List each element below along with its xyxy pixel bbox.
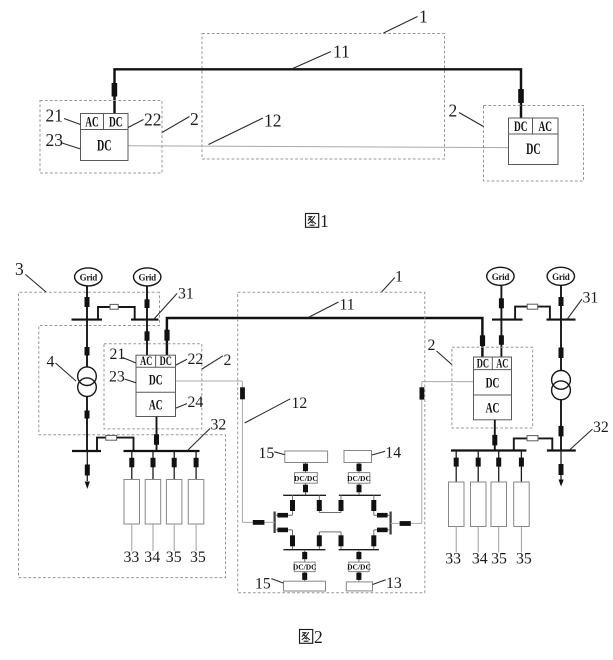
tail wire 33 [131, 524, 133, 551]
svg-text:32: 32 [211, 417, 227, 434]
breaker mark on converter AC input [145, 331, 150, 341]
figure 1 [40, 7, 584, 232]
svg-text:2: 2 [428, 337, 436, 354]
mark arm A [290, 500, 295, 511]
svg-text:DC: DC [109, 115, 123, 131]
wire: battery feeder 4 [195, 451, 197, 480]
mark on stub A [277, 513, 288, 518]
wire: battery feeder 2 right [477, 451, 479, 483]
svg-text:2: 2 [190, 109, 199, 129]
transformer right [552, 371, 571, 400]
mark on right feed [400, 521, 411, 526]
breaker mark on G1 feeder [85, 297, 90, 307]
svg-text:AC: AC [496, 355, 508, 370]
breaker mark feeder 3 [172, 458, 177, 468]
battery unit 35b [188, 480, 204, 525]
grid source G3 [487, 267, 514, 285]
breaker mark feeder 1 [129, 458, 134, 468]
breaker mark above right transformer [559, 348, 564, 359]
tail wire 34 [152, 524, 154, 551]
arrow outgoing feeder [85, 482, 90, 490]
breaker mark feeder 2 right [476, 458, 481, 467]
svg-text:DC: DC [97, 138, 112, 155]
leader line to 4 [56, 363, 77, 381]
battery box 15 (bottom) [284, 581, 326, 591]
lower busbar 32 (transformer segment) [72, 450, 101, 452]
AC busbar 31 right (left segment) [492, 319, 523, 321]
battery unit 33 right [449, 482, 465, 527]
lower bus-tie loop right [514, 438, 553, 450]
svg-text:23: 23 [46, 130, 64, 150]
svg-text:2: 2 [314, 627, 323, 647]
arrow right outgoing feeder [559, 480, 564, 487]
bridge arm wire C2 [340, 532, 342, 550]
isolator mark on right leg of 11 [480, 335, 485, 346]
breaker mark on right AC output [492, 435, 497, 446]
breaker mark on converter AC input right [499, 335, 504, 345]
leader line to 13 [373, 580, 386, 585]
tail wire 35a [173, 524, 175, 551]
svg-text:33: 33 [124, 549, 140, 566]
tail wire 33 right [455, 527, 457, 553]
stub wire bar to arm A [275, 514, 293, 516]
mark arm D [371, 500, 376, 511]
svg-text:31: 31 [178, 286, 194, 303]
svg-text:2: 2 [449, 101, 458, 121]
breaker mark below right transformer [559, 426, 564, 437]
converter right: DC/AC + DC + AC stack [474, 355, 512, 420]
lower bus-tie switch box right [527, 436, 538, 441]
svg-text:DC: DC [160, 353, 172, 368]
mark on stub A2 [277, 528, 288, 533]
wire: battery feeder 1 right [455, 451, 457, 483]
svg-text:DC: DC [486, 375, 500, 391]
wire: right dropper from 12 [421, 382, 423, 524]
svg-text:AC: AC [486, 400, 500, 416]
bridge arm wire D2 [373, 530, 375, 550]
breaker mark feeder 4 [194, 458, 199, 468]
breaker mark on right outgoing feeder [559, 464, 564, 475]
figure 2 : left grid-side section [15, 259, 482, 578]
tail wire 35b right [520, 527, 522, 553]
battery unit 35b right [514, 482, 530, 527]
bridge arm wire B2 [318, 532, 320, 550]
wire: battery feeder 1 [131, 451, 133, 480]
tail wire 35b [195, 524, 197, 551]
svg-text:1: 1 [320, 211, 329, 231]
battery unit 35a [166, 480, 182, 525]
svg-text:15: 15 [255, 576, 271, 593]
svg-text:Grid: Grid [552, 272, 570, 282]
wire: grid G1 feeder to AC bus [86, 286, 88, 320]
wire: converter AC output down to battery bus [156, 417, 158, 452]
svg-text:22: 22 [188, 351, 204, 368]
dashed box converter station 2 (left) [40, 101, 162, 174]
svg-text:35: 35 [491, 551, 507, 568]
wire: G4 feeder to AC bus [560, 285, 562, 319]
converter 2 left: AC/DC + DC box [81, 114, 129, 161]
svg-text:Grid: Grid [492, 272, 510, 282]
mark arm A2 [290, 535, 295, 546]
caption 图2 [300, 627, 323, 647]
battery box 14 (top right) [344, 451, 372, 463]
mark arm B2 [317, 535, 322, 546]
dc/dc converter (top left) [294, 473, 318, 484]
svg-text:35: 35 [166, 549, 182, 566]
svg-text:14: 14 [385, 445, 401, 462]
breaker mark feeder 2 [151, 458, 156, 468]
svg-text:32: 32 [593, 419, 609, 436]
bus-tie switch box right [527, 304, 538, 309]
svg-text:11: 11 [333, 42, 350, 62]
mark on stub D2 [377, 528, 388, 533]
svg-text:Grid: Grid [80, 272, 98, 282]
svg-text:DC/DC: DC/DC [347, 563, 371, 572]
wire 12 right stub [422, 381, 474, 383]
dashed box converter station 2 (right) [484, 106, 584, 182]
mark arm C [339, 500, 344, 511]
svg-text:22: 22 [144, 110, 162, 130]
converter left: AC/DC + DC + AC stack [136, 353, 176, 417]
feed wire left dropper to bar [242, 521, 274, 523]
mark on stub D [377, 513, 388, 518]
wire: transformer to lower bus [86, 396, 88, 451]
breaker mark on G3 feeder [499, 298, 504, 308]
wire: right transformer to lower bus [560, 400, 562, 451]
pole busbar bottom-left [283, 549, 325, 551]
feed wire right dropper to bar [391, 522, 422, 524]
svg-text:DC/DC: DC/DC [347, 474, 371, 483]
svg-text:35: 35 [190, 549, 206, 566]
wire: G3 feeder to AC bus [500, 285, 502, 319]
bridge arm wire A [292, 495, 294, 515]
battery unit 33 [124, 480, 140, 525]
mark below dc/dc BR [356, 573, 361, 580]
leader line to 2 right [459, 113, 484, 127]
stub wire bar to arm A2 [275, 529, 293, 531]
wire dc/dc to battery 13 [358, 572, 360, 582]
grid source G1 (left) [75, 268, 102, 286]
bridge arm wire D [373, 495, 375, 515]
leader line to 24 [176, 404, 188, 409]
isolator mark on left leg of 11 [112, 83, 118, 97]
breaker mark above transformer [85, 347, 90, 356]
lower busbar 32 (battery segment) [124, 450, 200, 452]
svg-text:3: 3 [15, 259, 24, 279]
breaker mark on AC output [154, 434, 159, 445]
svg-text:DC/DC: DC/DC [294, 474, 318, 483]
leader line to 32 right [570, 429, 593, 450]
leader line to 11 [291, 52, 331, 70]
inner link wire top [319, 512, 341, 514]
battery unit 35a right [491, 482, 507, 527]
mark above dc/dc BR [356, 552, 361, 559]
dashed box system 1 [202, 34, 445, 160]
svg-text:DC: DC [149, 373, 163, 389]
dc/dc converter (bottom left) [293, 562, 317, 572]
svg-text:23: 23 [109, 369, 125, 386]
svg-text:33: 33 [445, 551, 461, 568]
svg-text:AC: AC [140, 353, 152, 368]
leader line to 22 [128, 120, 144, 128]
AC busbar 31 right (right segment) [547, 319, 576, 321]
breaker mark feeder 3 right [496, 458, 501, 467]
breaker mark on G4 feeder [559, 297, 564, 306]
converter 2 right: DC/AC + DC box [509, 118, 559, 165]
breaker mark on outgoing feeder [85, 465, 90, 476]
figure 2 : middle energy-storage section [176, 292, 474, 647]
svg-text:24: 24 [188, 394, 204, 411]
wire dc/dc to top-right pole bus [358, 483, 360, 495]
wire: left dropper from 12 [241, 381, 243, 522]
svg-text:12: 12 [292, 395, 308, 412]
wire bottom-left bus to dc/dc [304, 550, 306, 562]
mark below dc/dc BL [302, 573, 307, 580]
mark above dc/dc TL [303, 464, 308, 472]
wire: grid G2 feeder to AC bus [146, 286, 148, 320]
wire battery15 to dc/dc [305, 463, 307, 473]
wire battery14 to dc/dc [358, 463, 360, 473]
svg-text:21: 21 [46, 106, 64, 126]
inner link wire bottom [319, 531, 341, 533]
leader line to 31 right [568, 299, 583, 319]
left pole bar [274, 512, 276, 534]
svg-text:12: 12 [264, 111, 282, 131]
isolator mark on right leg of 11 [518, 89, 524, 103]
wire: G3 feeder bus to converter AC cell [500, 320, 502, 357]
svg-text:31: 31 [583, 289, 599, 306]
wire: G2 feeder from bus to converter AC cell [146, 320, 148, 356]
leader line to 14 [372, 451, 385, 455]
svg-text:2: 2 [224, 352, 232, 369]
leader line to 21 [123, 358, 137, 364]
dashed box system 1 (fig2) [238, 292, 425, 592]
mark below dc/dc TR [357, 485, 362, 493]
leader line to 22 [176, 359, 188, 365]
leader line to 15 bottom [271, 579, 283, 583]
svg-text:4: 4 [47, 354, 55, 371]
isolator mark on right dropper [420, 387, 425, 399]
wire: battery feeder 4 right [520, 451, 522, 483]
battery unit 34 [145, 480, 161, 525]
svg-text:35: 35 [516, 551, 532, 568]
leader line to 23 [125, 379, 137, 383]
leader line to 23 [62, 143, 81, 149]
wire: transformer branch right below bus [560, 320, 562, 371]
mark below dc/dc TL [303, 485, 308, 493]
svg-text:15: 15 [259, 445, 275, 462]
bridge arm wire A2 [292, 530, 294, 550]
breaker mark feeder 1 right [454, 458, 459, 467]
svg-text:21: 21 [110, 346, 126, 363]
battery box 13 [346, 582, 372, 591]
mark on left feed [253, 520, 265, 525]
mark above dc/dc TR [357, 464, 362, 472]
dashed box converter unit 2 (left) [104, 344, 202, 429]
bus-tie switch box [110, 304, 118, 309]
wire: battery feeder 3 right [498, 451, 500, 483]
heavy wire 11 with left bend into DC cell [167, 318, 483, 357]
grid source G2 [134, 268, 161, 286]
svg-text:1: 1 [395, 268, 403, 285]
svg-text:AC: AC [85, 115, 99, 131]
dc/dc converter (top right) [347, 473, 371, 484]
wire bottom-right bus to dc/dc [358, 550, 360, 562]
breaker mark on G2 feeder [145, 299, 150, 308]
leader line to 31 [154, 294, 177, 320]
bridge arm wire B [318, 495, 320, 512]
wire: transformer branch below bus [86, 320, 88, 367]
caption 图1 [306, 211, 329, 231]
isolator mark on left leg of 11 [164, 330, 169, 341]
stub wire bar to arm D2 [374, 529, 391, 531]
leader line to 11 [308, 302, 339, 318]
svg-text:34: 34 [144, 549, 160, 566]
bridge arm wire C [340, 495, 342, 512]
leader line to 32 [188, 429, 211, 451]
svg-text:DC/DC: DC/DC [293, 563, 317, 572]
lower bus-tie switch box [106, 435, 117, 440]
pole busbar top-right [339, 494, 381, 496]
svg-text:DC: DC [477, 355, 489, 370]
wire: feeder below right lower bus [560, 451, 562, 481]
svg-text:AC: AC [149, 397, 163, 413]
battery box 15 (top) [285, 451, 328, 463]
battery unit 34 right [471, 482, 487, 527]
wire: battery feeder 3 [173, 451, 175, 480]
dashed boundary unit 3 (stepped polygon) [19, 292, 226, 577]
leader line to 12 [245, 399, 291, 423]
leader line to 1 [381, 278, 395, 293]
svg-text:11: 11 [340, 297, 355, 314]
grid source G4 [547, 267, 574, 285]
mark above dc/dc BL [302, 552, 307, 559]
leader line to 21 [64, 119, 81, 125]
breaker mark feeder 4 right [519, 458, 524, 467]
wire 11 (heavy DC line) [115, 69, 522, 118]
svg-text:1: 1 [419, 7, 428, 27]
wire dc/dc to top-left pole bus [305, 483, 307, 495]
pole busbar bottom-right [339, 549, 379, 551]
svg-text:DC: DC [526, 141, 541, 158]
mark arm C2 [339, 535, 344, 546]
leader line to 12 [209, 118, 264, 145]
right pole bar [390, 512, 392, 535]
figure 2 : right grid-side section [428, 267, 609, 567]
transformer 4 [78, 367, 97, 397]
mark arm B [317, 500, 322, 511]
pole busbar top-left [283, 494, 326, 496]
wire: feeder below lower bus [86, 451, 88, 481]
bus-tie wire loop [98, 307, 135, 320]
svg-text:AC: AC [539, 119, 553, 135]
leader line to 2 left [162, 117, 190, 133]
wire dc/dc to battery 15 bottom [304, 572, 306, 582]
leader line to 2 right [437, 351, 452, 365]
bus-tie wire loop right [515, 307, 550, 320]
leader line to 1 [384, 17, 418, 34]
tail wire 34 right [477, 527, 479, 553]
leader line to 2 [202, 356, 223, 369]
lower busbar 32 right (battery segment) [451, 449, 526, 451]
wire: converter AC output right down to battery bus [494, 420, 496, 451]
lower busbar 32 right (transformer segment) [547, 449, 576, 451]
breaker mark below transformer [85, 411, 90, 419]
svg-text:Grid: Grid [139, 272, 157, 282]
svg-text:13: 13 [386, 575, 402, 592]
tail wire 35a right [498, 527, 500, 553]
lower bus-tie loop [97, 438, 134, 451]
wire 12 left stub [176, 380, 243, 382]
AC busbar 31 (left segment) [72, 319, 103, 321]
svg-text:34: 34 [472, 551, 488, 568]
isolator mark on left dropper [240, 387, 245, 399]
AC busbar 31 (right segment) [131, 319, 159, 321]
mark arm D2 [371, 535, 376, 546]
wire 12 (thin DC line) [128, 146, 509, 148]
leader line to 15 [274, 452, 284, 455]
svg-text:DC: DC [514, 119, 528, 135]
wire: battery feeder 2 [152, 451, 154, 480]
dashed box converter unit 2 (right) [452, 347, 533, 428]
stub wire bar to arm D [374, 514, 391, 516]
dc/dc converter (bottom right) [347, 562, 371, 572]
leader line to 3 [26, 275, 47, 293]
